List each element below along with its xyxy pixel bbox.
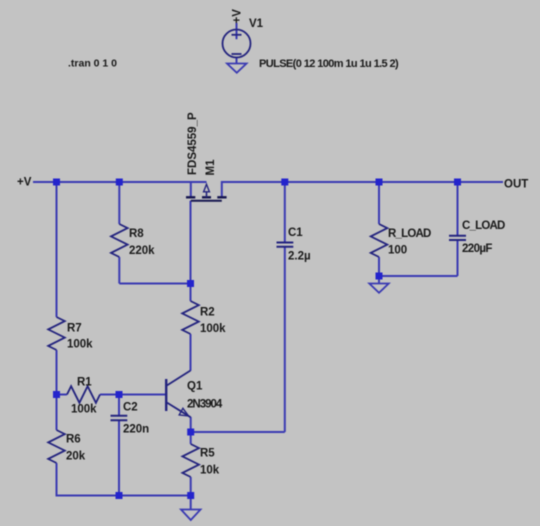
wire mosfet gate down to node bbox=[190, 201, 192, 284]
wire ground rail right half bbox=[119, 495, 191, 497]
svg-text:100k: 100k bbox=[67, 339, 93, 351]
svg-text:C2: C2 bbox=[123, 402, 138, 414]
wire +V rail left segment bbox=[33, 181, 207, 183]
node C2/ground rail bbox=[116, 492, 123, 499]
wire C2 top lead bbox=[118, 395, 120, 416]
wire +V rail right segment to OUT bbox=[222, 181, 503, 183]
resistor R7 100k bbox=[48, 317, 65, 350]
wire mosfet drain pin bbox=[221, 181, 223, 197]
svg-text:.tran 0 1 0: .tran 0 1 0 bbox=[68, 58, 117, 70]
wire R_LOAD ground stub bbox=[378, 276, 380, 284]
svg-text:Q1: Q1 bbox=[187, 381, 203, 393]
svg-text:220k: 220k bbox=[129, 245, 155, 257]
wire R6 bottom to ground rail bbox=[57, 463, 120, 496]
svg-text:20k: 20k bbox=[66, 451, 86, 463]
node R5/ground rail bbox=[187, 492, 194, 499]
wire R7 bottom to R1 node bbox=[56, 350, 58, 395]
wire Q1 emitter to node bbox=[190, 417, 192, 432]
wire V1 top pin bbox=[236, 23, 238, 39]
wire V1 bottom pin bbox=[236, 58, 238, 64]
svg-text:R5: R5 bbox=[200, 448, 215, 460]
svg-text:C1: C1 bbox=[288, 227, 303, 239]
wire R2 bottom to Q1 collector bbox=[190, 334, 192, 371]
ground under V1 bbox=[227, 64, 247, 73]
wire emitter node to R5 top bbox=[190, 432, 192, 444]
node +V/R8 bbox=[116, 179, 123, 186]
capacitor C2 220n plates bbox=[111, 416, 128, 420]
svg-text:100k: 100k bbox=[200, 323, 226, 335]
svg-text:M1: M1 bbox=[205, 159, 217, 176]
svg-text:2N3904: 2N3904 bbox=[187, 399, 223, 411]
wire mosfet source pin bbox=[190, 181, 192, 197]
svg-text:PULSE(0 12 100m 1u 1u 1.5 2): PULSE(0 12 100m 1u 1u 1.5 2) bbox=[259, 58, 399, 70]
node rail/R_LOAD bbox=[376, 179, 383, 186]
svg-text:R6: R6 bbox=[66, 434, 81, 446]
node R_LOAD/C_LOAD gnd bbox=[376, 273, 383, 280]
wire left column to R7 top bbox=[56, 182, 58, 317]
svg-text:220µF: 220µF bbox=[462, 243, 492, 255]
svg-text:2.2µ: 2.2µ bbox=[288, 251, 311, 263]
wire R1 node to R6 top bbox=[56, 394, 58, 430]
svg-text:FDS4559_P: FDS4559_P bbox=[187, 112, 199, 175]
svg-text:R1: R1 bbox=[77, 377, 92, 389]
wire C1 top to rail bbox=[284, 182, 286, 243]
node R7/R1/R6 bbox=[53, 391, 60, 398]
svg-text:10k: 10k bbox=[200, 465, 220, 477]
junction node dots bbox=[53, 179, 461, 500]
wire emitter node to C1 bottom bbox=[191, 431, 285, 433]
svg-text:C_LOAD: C_LOAD bbox=[462, 220, 505, 232]
svg-text:100: 100 bbox=[388, 245, 407, 257]
ground under R_LOAD bbox=[369, 284, 388, 293]
wire R5 bottom to ground rail bbox=[190, 477, 192, 496]
svg-text:100k: 100k bbox=[71, 404, 97, 416]
svg-text:R_LOAD: R_LOAD bbox=[388, 228, 431, 240]
node gate/R8/R2 bbox=[187, 280, 194, 287]
resistor R2 100k bbox=[182, 301, 199, 334]
svg-text:OUT: OUT bbox=[504, 179, 528, 191]
node rail/C_LOAD bbox=[454, 179, 461, 186]
wire +V to R8 top bbox=[118, 182, 120, 224]
wire rail to C_LOAD top bbox=[457, 182, 459, 236]
voltage source V1 circle bbox=[223, 30, 251, 58]
wire R5 ground stub bbox=[190, 496, 192, 510]
ground under R5 bbox=[181, 510, 201, 521]
wire R8 bottom bbox=[118, 257, 120, 284]
wire C1 bottom vertical bbox=[284, 247, 286, 432]
svg-text:R8: R8 bbox=[129, 228, 144, 240]
resistor R8 220k bbox=[111, 224, 128, 257]
resistor R_LOAD 100 bbox=[371, 224, 388, 257]
capacitor C_LOAD 220uF plates bbox=[449, 236, 466, 240]
wire load bottom row to C_LOAD bbox=[379, 275, 458, 277]
svg-text:+V: +V bbox=[232, 9, 244, 24]
svg-text:R2: R2 bbox=[200, 307, 215, 319]
transistor Q1 2N3904 bbox=[166, 371, 191, 418]
wire R1 left lead bbox=[57, 394, 68, 396]
resistor R6 20k bbox=[48, 430, 65, 463]
wire C2 node to Q1 base bbox=[119, 394, 166, 396]
wire R8 to gate node horizontal bbox=[119, 283, 190, 285]
wire gate node to R2 top bbox=[190, 284, 192, 302]
wire C2 bottom lead bbox=[118, 421, 120, 496]
resistor R5 10k bbox=[182, 444, 199, 477]
mosfet M1 FDS4559_P bbox=[186, 184, 227, 201]
node emitter/R5/C1 bbox=[187, 429, 194, 436]
svg-text:V1: V1 bbox=[249, 18, 264, 30]
node rail/C1 bbox=[281, 179, 288, 186]
node R1/C2/base bbox=[116, 391, 123, 398]
wire rail to R_LOAD top bbox=[378, 182, 380, 224]
svg-text:+V: +V bbox=[17, 177, 32, 189]
wire R1 right lead to C2 node bbox=[100, 394, 119, 396]
wire C_LOAD bottom vertical bbox=[457, 240, 459, 276]
svg-text:220n: 220n bbox=[123, 424, 149, 436]
resistor R1 100k horizontal bbox=[67, 386, 100, 403]
wire R_LOAD bottom bbox=[378, 257, 380, 276]
capacitor C1 2.2u plates bbox=[277, 243, 294, 247]
svg-text:R7: R7 bbox=[67, 323, 82, 335]
node +V/R7 bbox=[53, 179, 60, 186]
